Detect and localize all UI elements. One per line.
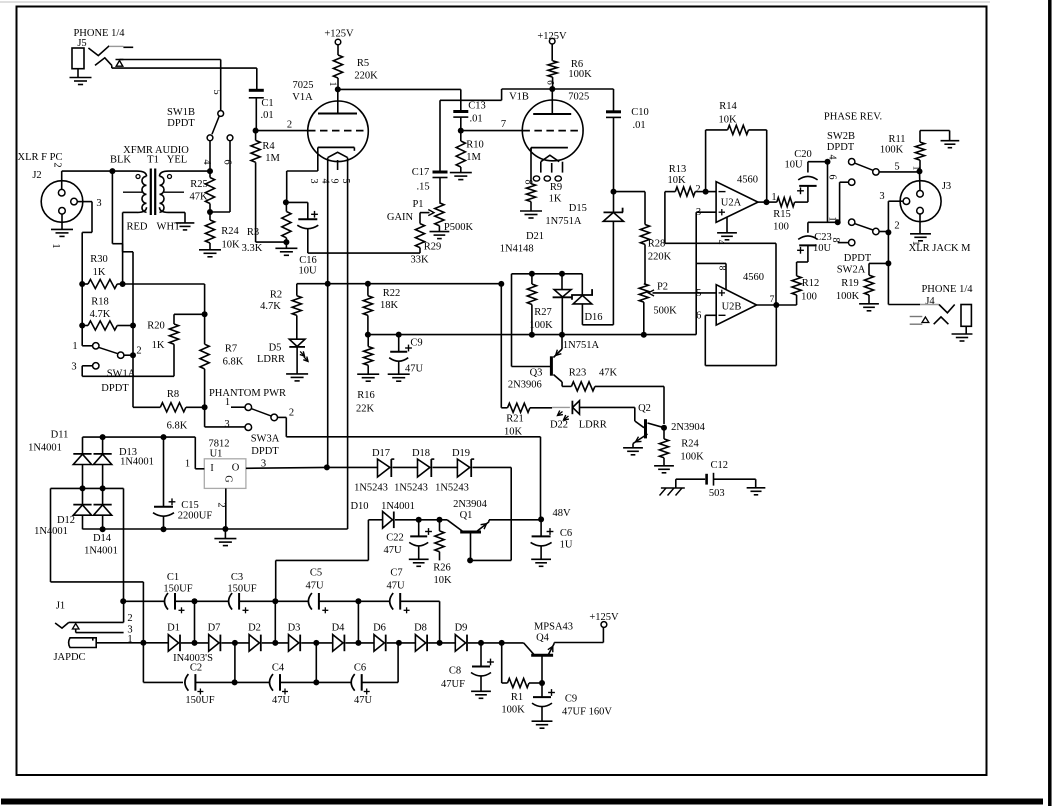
svg-text:6.8K: 6.8K	[167, 421, 188, 432]
svg-text:R20: R20	[147, 321, 165, 332]
svg-text:33K: 33K	[410, 255, 429, 266]
resistor R3 3.3K	[242, 202, 291, 254]
resistor R24 10K (input pad)	[205, 212, 240, 251]
svg-text:47U: 47U	[272, 695, 291, 706]
triode V1B 7025	[509, 89, 589, 185]
svg-text:DPDT: DPDT	[844, 253, 872, 264]
resistor R2 4.7K	[260, 290, 301, 340]
svg-text:D9: D9	[455, 623, 468, 634]
svg-text:D4: D4	[332, 623, 346, 634]
zener diode D19 1N5243	[435, 448, 474, 494]
svg-text:2: 2	[127, 613, 132, 624]
svg-text:SW2B: SW2B	[827, 131, 855, 142]
junction V1B plate node	[549, 86, 555, 92]
svg-text:C5: C5	[310, 568, 322, 579]
junction C1-C3 node	[192, 598, 198, 604]
junction YEL / SW1B-4 / R25	[207, 168, 213, 174]
svg-text:V1A: V1A	[292, 92, 313, 103]
svg-text:R9: R9	[550, 182, 562, 193]
resistor R19 100K	[836, 253, 889, 304]
svg-text:4.7K: 4.7K	[90, 309, 111, 320]
wire R30 row to R7 top	[123, 284, 205, 314]
svg-text:R21: R21	[506, 414, 524, 425]
svg-text:100K: 100K	[529, 320, 553, 331]
svg-text:D10: D10	[350, 501, 368, 512]
resistor R29 33K	[410, 224, 441, 266]
resistor R20 1K	[147, 314, 178, 376]
ground of D5	[286, 374, 308, 381]
wire R20 top to R7 top	[174, 313, 205, 315]
svg-text:6.8K: 6.8K	[223, 357, 244, 368]
svg-text:100: 100	[773, 222, 789, 233]
svg-text:C23: C23	[814, 232, 832, 243]
diode D1 IN4003	[143, 623, 213, 665]
resistor R6 100K	[546, 59, 593, 89]
ground of J5	[70, 78, 92, 85]
junction R3 top / cathode V1A	[283, 199, 290, 245]
diode D8	[414, 623, 427, 652]
svg-text:C1: C1	[261, 98, 273, 109]
resistor R23 47K	[562, 368, 664, 425]
capacitor C9 47UF 160V	[532, 683, 613, 728]
op-amp U2B 4560	[696, 272, 764, 325]
wire V1B cathode to R9	[530, 148, 532, 184]
capacitor C4 47U	[235, 663, 317, 707]
svg-text:R7: R7	[225, 344, 237, 355]
ground of R11	[941, 141, 960, 148]
svg-text:.01: .01	[632, 120, 645, 131]
diode D9	[455, 623, 468, 652]
svg-text:2: 2	[287, 120, 292, 131]
junction R1 node	[499, 640, 505, 646]
svg-text:Q1: Q1	[460, 510, 473, 521]
wire SW2B pin5 throw to J3 pin1	[879, 171, 919, 173]
ground of C22	[409, 559, 429, 566]
svg-text:R18: R18	[91, 297, 109, 308]
svg-text:9: 9	[329, 179, 340, 184]
wire C3C5 node down	[274, 601, 276, 643]
wire U2B output to R12	[757, 304, 797, 306]
svg-text:BLK: BLK	[110, 155, 131, 166]
svg-text:2: 2	[52, 162, 63, 167]
svg-text:R3: R3	[247, 227, 259, 238]
svg-text:T1: T1	[147, 155, 159, 166]
diode D2	[248, 623, 261, 652]
power node +125V for V1A	[324, 29, 354, 56]
svg-text:47UF: 47UF	[441, 679, 465, 690]
svg-text:.15: .15	[416, 182, 429, 193]
svg-text:.01: .01	[260, 110, 273, 121]
capacitor C23 10U	[797, 222, 832, 254]
svg-text:150UF: 150UF	[185, 695, 214, 706]
svg-text:47U: 47U	[354, 695, 373, 706]
connector J1 JAPDC power jack	[53, 601, 143, 664]
svg-text:2: 2	[695, 184, 700, 195]
zener diode D15 1N751A (labels D21 1N4148)	[500, 192, 624, 325]
wire 48V input row left	[276, 520, 383, 602]
svg-text:R12: R12	[802, 278, 820, 289]
svg-text:1N751A: 1N751A	[563, 340, 600, 351]
svg-text:3: 3	[308, 179, 319, 184]
junction R11 bottom / SW2B pin5 wire	[917, 168, 923, 174]
svg-text:6: 6	[546, 80, 556, 85]
svg-text:47K: 47K	[189, 192, 208, 203]
svg-text:4: 4	[827, 155, 838, 160]
chassis ground of C12 left	[660, 488, 685, 496]
wire ground rail of supply	[83, 528, 348, 530]
resistor R26 10K	[433, 520, 452, 586]
junction C4-C6 node	[313, 679, 319, 685]
wire T1 secondary bottom WHT to ground	[169, 212, 186, 223]
svg-text:1: 1	[50, 243, 61, 248]
svg-text:10K: 10K	[221, 240, 240, 251]
power node +125V output	[589, 612, 619, 627]
junction U2B output pin7	[770, 295, 780, 308]
node 48V	[538, 508, 571, 522]
svg-text:100K: 100K	[568, 69, 592, 80]
svg-text:SW3A: SW3A	[251, 434, 280, 445]
svg-text:3: 3	[96, 198, 101, 209]
svg-text:1N4148: 1N4148	[500, 244, 534, 255]
svg-text:3.3K: 3.3K	[242, 243, 263, 254]
wire mid rail to J1 pin1 sleeve	[51, 488, 144, 682]
wire U2A apex to output	[758, 201, 767, 203]
svg-text:PHANTOM PWR: PHANTOM PWR	[209, 388, 286, 399]
svg-text:D11: D11	[51, 430, 69, 441]
svg-text:500K: 500K	[653, 306, 677, 317]
resistor R4 1M	[251, 131, 280, 243]
svg-text:22K: 22K	[356, 404, 375, 415]
wire C23 to R12	[797, 245, 808, 276]
svg-text:Q4: Q4	[536, 633, 550, 644]
svg-text:MPSA43: MPSA43	[534, 622, 573, 633]
diode D6	[373, 623, 386, 652]
wire U2B pin6 feedback loop	[705, 305, 776, 366]
wire J2 pin3 to R30 left	[77, 202, 92, 284]
wire SW3A pin2 to 48V node	[278, 417, 541, 519]
svg-text:D17: D17	[372, 448, 390, 459]
wire Q1 emitter to 48V node	[489, 520, 541, 522]
svg-text:47U: 47U	[305, 581, 324, 592]
capacitor C12 503	[676, 460, 756, 499]
svg-text:C17: C17	[412, 167, 430, 178]
resistor R10 1M	[456, 131, 484, 173]
capacitor C2 150UF	[185, 663, 235, 707]
svg-text:C10: C10	[631, 107, 649, 118]
svg-text:47U: 47U	[386, 581, 405, 592]
svg-text:2: 2	[136, 346, 141, 357]
svg-text:18K: 18K	[380, 300, 399, 311]
svg-text:47UF 160V: 47UF 160V	[562, 707, 612, 718]
switch SW1A DPDT section A	[71, 341, 174, 394]
wire C7 down to D8-D9 node	[439, 601, 441, 643]
svg-text:47U: 47U	[405, 364, 424, 375]
svg-text:R10: R10	[466, 140, 484, 151]
capacitor C5 47U	[275, 568, 358, 614]
svg-text:100K: 100K	[501, 705, 525, 716]
svg-text:J2: J2	[32, 170, 41, 181]
svg-text:D21: D21	[526, 231, 544, 242]
svg-text:XLR F PC: XLR F PC	[18, 152, 63, 163]
ground of U2A	[716, 217, 737, 245]
junction R26 top	[437, 517, 443, 523]
wire T1 primary top BLK	[112, 170, 137, 172]
svg-text:4: 4	[716, 240, 726, 245]
resistor R11 100K	[880, 131, 950, 172]
svg-text:10K: 10K	[504, 427, 523, 438]
svg-text:R27: R27	[534, 307, 552, 318]
capacitor C3 150UF	[195, 572, 276, 613]
svg-text:D16: D16	[584, 312, 602, 323]
junction D6-D8 node	[396, 640, 402, 646]
wire D14 rail down to J1 tip	[123, 488, 125, 601]
junction R30 right	[120, 281, 126, 287]
wire R4 bottom to R3 bottom	[256, 241, 287, 243]
ground of R16	[357, 374, 379, 381]
svg-text:JAPDC: JAPDC	[53, 652, 85, 663]
svg-text:C9: C9	[565, 694, 577, 705]
svg-text:7: 7	[501, 119, 506, 130]
junction R25 bottom	[207, 209, 213, 215]
capacitor C6 1U	[531, 519, 573, 559]
wire zener row left	[327, 466, 378, 468]
svg-text:220K: 220K	[648, 252, 672, 263]
junction Q1 base	[467, 557, 473, 563]
wire J5 ring to C1	[112, 65, 257, 90]
svg-text:C4: C4	[272, 663, 285, 674]
junction C10 / D15 / R28	[611, 189, 617, 195]
junction R27 top / zener top	[529, 271, 565, 277]
wire AC mid rail	[51, 487, 124, 489]
connector J5 PHONE 1/4 jack	[72, 28, 133, 78]
svg-text:D14: D14	[93, 533, 112, 544]
svg-text:R13: R13	[669, 164, 687, 175]
wire U1 ground stub	[224, 529, 226, 539]
svg-text:R19: R19	[841, 278, 859, 289]
svg-text:R8: R8	[167, 389, 179, 400]
svg-text:C6: C6	[354, 663, 366, 674]
svg-text:RED: RED	[127, 222, 148, 233]
svg-text:4560: 4560	[737, 175, 758, 186]
svg-text:R11: R11	[888, 134, 905, 145]
svg-text:R28: R28	[648, 239, 666, 250]
svg-text:7025: 7025	[568, 92, 589, 103]
junction C3-C5 node	[272, 598, 278, 604]
junction C5-C7 node	[355, 598, 361, 604]
power node +125V for V1B	[537, 31, 567, 61]
svg-text:C1: C1	[167, 572, 179, 583]
svg-text:GAIN: GAIN	[387, 212, 414, 223]
svg-text:100K: 100K	[880, 145, 904, 156]
svg-text:D6: D6	[373, 623, 386, 634]
svg-text:1: 1	[185, 459, 190, 470]
svg-text:U1: U1	[210, 449, 223, 460]
transistor Q1 2N3904	[447, 499, 489, 560]
junction U2A pin2	[695, 184, 708, 195]
svg-text:2200UF: 2200UF	[178, 511, 213, 522]
switch SW1B DPDT section B	[167, 89, 233, 165]
ground of P1	[430, 232, 450, 239]
resistor R21 10K	[501, 284, 552, 437]
svg-text:R4: R4	[262, 141, 275, 152]
capacitor C7 47U	[358, 568, 439, 614]
junction D14 bottom	[100, 526, 106, 532]
svg-text:10K: 10K	[433, 575, 452, 586]
svg-text:R23: R23	[569, 368, 587, 379]
svg-text:O: O	[232, 463, 240, 474]
svg-text:DPDT: DPDT	[251, 446, 279, 457]
junction R22 bottom / bias rail left end	[365, 332, 371, 338]
wire D6-D8	[387, 642, 416, 644]
svg-text:100K: 100K	[836, 291, 860, 302]
svg-text:47U: 47U	[383, 545, 402, 556]
svg-text:C13: C13	[468, 101, 486, 112]
svg-text:D18: D18	[412, 448, 430, 459]
svg-text:DPDT: DPDT	[167, 118, 195, 129]
junction Q4 base / R1 / C9	[539, 680, 545, 686]
svg-text:C7: C7	[390, 568, 402, 579]
junction C15 top / bottom	[161, 434, 167, 532]
svg-text:2N3906: 2N3906	[508, 380, 542, 391]
junction heater / zener string	[324, 464, 330, 470]
wire D4-D6	[345, 642, 374, 644]
wire V1A heater pin down to 12V rail	[327, 158, 329, 468]
wire grid V1B pin 7	[461, 119, 523, 131]
wire D2-D3	[262, 642, 289, 644]
capacitor C1 150UF	[123, 572, 194, 613]
wire D10 to Q1 collector	[395, 519, 447, 521]
svg-text:1N4001: 1N4001	[28, 443, 62, 454]
svg-text:6: 6	[222, 159, 233, 164]
svg-text:+125V: +125V	[324, 29, 354, 40]
svg-text:10U: 10U	[813, 243, 832, 254]
ground of R24	[654, 466, 674, 473]
wire Q3 network top rail	[512, 274, 583, 367]
svg-text:Q2: Q2	[638, 403, 651, 414]
junction R7 top / R20 top	[202, 311, 208, 317]
switch SW2B DPDT PHASE REV	[808, 112, 900, 246]
junction C2-C4 node	[232, 679, 238, 685]
wire D1-D7	[181, 642, 209, 644]
capacitor C16 10U cathode bypass	[286, 202, 318, 276]
wire cathode bypass rail R2-R22	[297, 284, 501, 296]
wire D18-D19	[433, 466, 458, 468]
wire V1B plate branch to C17	[440, 89, 502, 172]
diode D7	[208, 623, 221, 652]
resistor R9 1K	[526, 182, 562, 211]
svg-text:Q3: Q3	[530, 368, 543, 379]
svg-text:R5: R5	[357, 58, 369, 69]
diode D4	[332, 623, 346, 652]
resistor R8 6.8K	[133, 355, 205, 431]
ground of C9	[388, 374, 410, 381]
svg-text:R1: R1	[511, 692, 523, 703]
svg-text:10K: 10K	[667, 175, 686, 186]
resistor R1 100K	[501, 643, 542, 716]
junction R19 / J4 node	[885, 260, 891, 266]
svg-text:5: 5	[211, 89, 222, 94]
junction C22 top	[416, 517, 422, 523]
junction D1-D7 node	[192, 640, 198, 646]
junction D2-D3 node	[272, 640, 278, 646]
junction R30 left	[79, 281, 85, 287]
transistor Q3 2N3906	[508, 335, 562, 391]
svg-text:1N5243: 1N5243	[435, 483, 469, 494]
svg-text:C22: C22	[386, 533, 404, 544]
LED D22 LDRR opto	[550, 401, 635, 431]
wire D15 bottom to D16	[582, 305, 613, 325]
wire bottom row up to D6D8 node	[397, 643, 400, 683]
svg-text:.01: .01	[469, 114, 482, 125]
svg-text:R24: R24	[681, 439, 699, 450]
svg-text:100K: 100K	[680, 452, 704, 463]
svg-text:8: 8	[717, 266, 727, 271]
svg-text:1: 1	[328, 82, 338, 87]
junction R27 bottom / Q3 emitter node on bias rail	[529, 332, 565, 338]
junction C8 node	[478, 640, 484, 646]
junction P2 bottom on bias rail	[641, 332, 647, 338]
svg-text:R26: R26	[433, 563, 451, 574]
wire C5C7 node down	[357, 601, 359, 643]
potentiometer P2 500K	[639, 282, 716, 335]
resistor R24 100K (opto drive)	[659, 428, 704, 466]
svg-text:R16: R16	[357, 390, 375, 401]
wire V1A plate to C13	[338, 89, 461, 111]
svg-text:R24: R24	[221, 226, 239, 237]
resistor R12 100	[792, 276, 819, 305]
junction BLK node	[109, 168, 115, 174]
svg-text:DPDT: DPDT	[827, 142, 855, 153]
svg-text:PHASE REV.: PHASE REV.	[824, 112, 882, 123]
svg-text:D22: D22	[550, 420, 568, 431]
svg-text:1M: 1M	[466, 152, 481, 163]
diode D12 1N4001	[34, 488, 92, 537]
svg-text:G: G	[223, 475, 234, 482]
svg-text:1K: 1K	[152, 340, 165, 351]
svg-text:2: 2	[216, 502, 227, 507]
svg-text:D8: D8	[414, 623, 427, 634]
junction D4-D6 node	[355, 640, 361, 646]
svg-text:SW1A: SW1A	[107, 369, 136, 380]
svg-text:P2: P2	[657, 282, 668, 293]
ground of R19	[859, 304, 879, 311]
svg-text:2N3904: 2N3904	[671, 422, 706, 433]
diode D10 1N4001	[350, 501, 414, 528]
svg-text:48V: 48V	[552, 508, 571, 519]
ground of R9	[520, 211, 542, 218]
junction J3 pin2 node	[885, 229, 891, 235]
connector J4 PHONE 1/4 jack output	[888, 263, 973, 334]
svg-text:C16: C16	[299, 255, 317, 266]
resistor R28 220K	[614, 192, 672, 284]
wire D19 to Q1 base rail	[470, 467, 511, 560]
LED D5 LDRR	[257, 339, 308, 374]
wire D3D4 node down	[315, 643, 317, 683]
wire J5 switch contact to SW1B pin5	[120, 60, 221, 111]
capacitor C20 10U	[784, 149, 827, 202]
resistor R25 47K	[189, 171, 214, 212]
resistor R27 100K	[527, 274, 553, 335]
zener diode 1N751A (to Q3 emitter)	[553, 274, 600, 351]
capacitor C1 .01	[249, 90, 274, 130]
svg-text:10K: 10K	[718, 115, 737, 126]
svg-text:2: 2	[894, 221, 899, 232]
junction J1 sleeve node	[140, 640, 146, 646]
svg-text:C20: C20	[794, 149, 812, 160]
svg-text:J3: J3	[942, 181, 951, 192]
resistor R22 18K	[363, 284, 400, 335]
diode D11 1N4001	[28, 430, 92, 489]
